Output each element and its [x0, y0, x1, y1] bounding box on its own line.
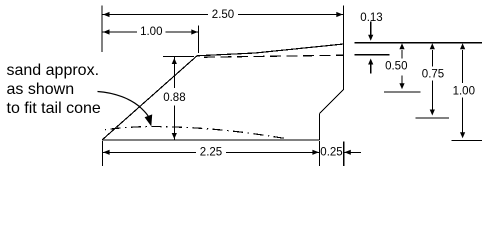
dimension line 2.50 [102, 14, 208, 16]
dimension line 1.00 right vertical [462, 50, 464, 83]
svg-text:2.25: 2.25 [200, 147, 222, 159]
svg-text:1.00: 1.00 [453, 86, 475, 98]
arrowhead 0.88 up [172, 58, 177, 64]
svg-text:0.25: 0.25 [320, 147, 342, 159]
tick 1.00 bottom [452, 140, 483, 142]
outline right upper vertical edge [343, 44, 345, 90]
outline right lower vertical edge [319, 114, 321, 141]
tick 0.50 bottom [384, 91, 421, 93]
extension line 1.00 right [198, 26, 200, 54]
0.13 leader up tail [370, 64, 372, 74]
dash-dot sanded bottom curve [105, 127, 284, 139]
arrowhead 0.13 up [368, 59, 373, 65]
dimension line 0.50 vertical [401, 50, 403, 59]
extension line bottom left [101, 141, 103, 166]
0.13 leader down line [370, 22, 372, 37]
arrowhead 0.75 down [430, 110, 435, 116]
extension line left top [101, 6, 103, 53]
tick 0.88 top [163, 56, 194, 58]
tick 0.75 bottom [416, 117, 450, 119]
arrowhead 0.88 down [172, 133, 177, 139]
extension line right top [343, 6, 345, 45]
svg-text:sand approx.: sand approx. [7, 62, 100, 79]
dimension line 0.75 vertical [431, 50, 433, 67]
svg-text:2.50: 2.50 [212, 9, 234, 21]
svg-text:1.00: 1.00 [140, 26, 162, 38]
leader curve from note [98, 92, 149, 117]
svg-text:0.13: 0.13 [360, 12, 382, 24]
svg-text:as shown: as shown [7, 81, 75, 98]
dimension line 2.25 [102, 151, 196, 153]
outline top edge [197, 44, 344, 56]
extension line bottom 2.25 right [319, 141, 321, 166]
outline left diagonal edge [102, 56, 197, 140]
dimension line 0.88 vertical [173, 57, 175, 88]
right section short offset line [355, 54, 390, 56]
arrowhead leader [145, 114, 153, 126]
dashed sanded top line [204, 55, 344, 57]
dimension line 1.00 [102, 31, 137, 33]
outline chamfer edge [320, 90, 344, 114]
arrowhead 0.13 down [368, 35, 373, 41]
arrowhead 0.50 down [399, 83, 404, 89]
arrowhead 0.25 right [344, 150, 351, 155]
arrowhead 2.50 right [336, 12, 343, 17]
arrowhead 2.25 right [312, 150, 319, 155]
arrowhead 1.00 right down [460, 132, 465, 138]
arrowhead 2.25 left [103, 150, 110, 155]
extension line bottom 0.25 right [343, 141, 345, 166]
svg-text:0.75: 0.75 [422, 69, 444, 81]
outline bottom edge [102, 139, 320, 141]
arrowhead 0.50 up [399, 43, 404, 49]
dimension line 0.25 tail [344, 151, 361, 153]
right section long reference line [355, 42, 482, 44]
svg-text:0.50: 0.50 [385, 60, 407, 72]
svg-text:0.88: 0.88 [163, 92, 185, 104]
arrowhead 0.75 up [430, 43, 435, 49]
arrowhead 2.50 left [103, 12, 110, 17]
arrowhead 1.00 right [191, 29, 198, 34]
arrowhead 1.00 left [103, 29, 110, 34]
svg-text:to fit tail cone: to fit tail cone [7, 100, 101, 117]
arrowhead 1.00 right up [460, 43, 465, 49]
